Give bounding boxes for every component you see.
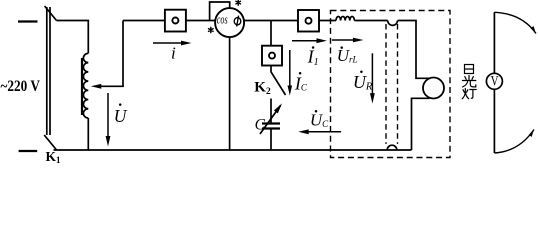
svg-text:K1: K1 xyxy=(46,149,62,164)
svg-text:i: i xyxy=(171,44,176,63)
svg-text:UR: UR xyxy=(353,72,373,93)
svg-text:C: C xyxy=(255,116,266,133)
svg-text:UC: UC xyxy=(310,111,329,130)
svg-text:K2: K2 xyxy=(254,79,271,96)
svg-text:U: U xyxy=(114,106,128,126)
svg-text:V: V xyxy=(491,74,499,90)
svg-text:~220 V: ~220 V xyxy=(1,78,41,95)
svg-text:I1: I1 xyxy=(307,47,319,68)
svg-text:IC: IC xyxy=(294,73,308,93)
svg-text:cos: cos xyxy=(217,12,228,27)
svg-text:UrL: UrL xyxy=(337,46,358,65)
